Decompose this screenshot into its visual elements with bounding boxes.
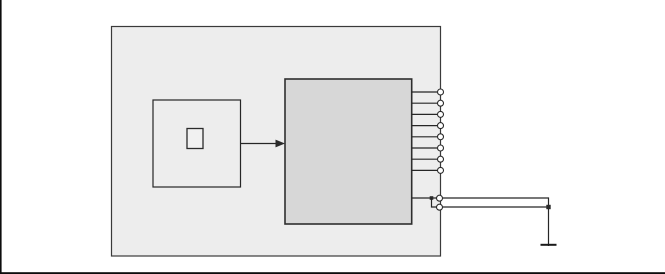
wire: pin 7	[412, 158, 437, 160]
junction dot at branch	[430, 196, 434, 200]
wire: pin 5	[412, 136, 437, 138]
wire: pin 4	[412, 125, 437, 127]
terminal circle 3	[438, 111, 444, 117]
wire: output pin from module	[412, 197, 437, 199]
terminal circle 9	[437, 195, 443, 201]
terminal circle 4	[438, 123, 444, 129]
block: outer board region	[112, 27, 441, 257]
ground	[541, 244, 557, 246]
terminal circle 6	[438, 145, 444, 151]
wire: upper net to the right	[443, 198, 549, 246]
sheet border frame (left edge)	[0, 0, 2, 274]
wire: lower net to the right	[443, 206, 549, 208]
wire: pin 8	[412, 169, 437, 171]
wire: pin 1	[412, 91, 437, 93]
terminal circle 8	[438, 167, 444, 173]
block: small inner rectangle	[187, 129, 203, 149]
terminal circle 10	[437, 204, 443, 210]
block: module U1	[285, 79, 412, 224]
sheet border frame (bottom edge)	[0, 272, 665, 274]
wire: pin 6	[412, 147, 437, 149]
wire: arrow from inner square to module	[241, 140, 286, 148]
junction dot on vertical net	[546, 205, 550, 209]
terminal circle 2	[438, 100, 444, 106]
block: inner square component	[153, 100, 241, 187]
terminal circle 5	[438, 134, 444, 140]
terminal circle 7	[438, 156, 444, 162]
wire: pin 3	[412, 113, 437, 115]
terminal circle 1	[438, 89, 444, 95]
wire: pin 2	[412, 102, 437, 104]
wire: branch down	[432, 198, 438, 207]
